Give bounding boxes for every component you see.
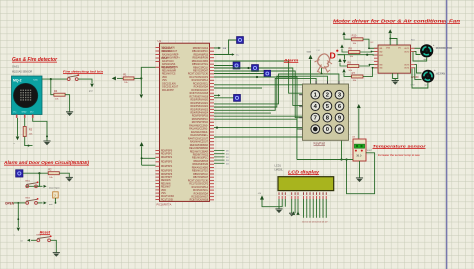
svg-text:R8: R8 <box>347 60 351 64</box>
wire terminal to R1 <box>117 77 123 79</box>
svg-text:RD3/PSP3/AN23: RD3/PSP3/AN23 <box>191 108 209 111</box>
svg-text:OSC2/CLKOUT: OSC2/CLKOUT <box>162 87 179 89</box>
svg-text:VDD: VDD <box>162 77 167 79</box>
label inside title <box>3 160 90 165</box>
svg-text:RD2/PSP2: RD2/PSP2 <box>161 157 173 159</box>
svg-text:RD5/PSP5: RD5/PSP5 <box>161 171 173 173</box>
wire riser to indicator A <box>229 40 237 55</box>
wire U1 D1 stub <box>214 153 225 155</box>
label lcd title <box>288 170 320 175</box>
labels D0-D7 <box>302 222 328 224</box>
node junction probe <box>55 202 57 204</box>
wire R10 left lead <box>344 36 352 39</box>
svg-text:MQ-2: MQ-2 <box>13 79 22 83</box>
wire U2 OUT4 to M2 <box>415 68 422 80</box>
svg-text:OPEN: OPEN <box>5 201 15 205</box>
wire U2 OUT1 to M1 <box>415 47 421 49</box>
svg-text:RE0/AN5/RDBAR: RE0/AN5/RDBAR <box>190 144 209 147</box>
microcontroller U1 PIC16F877A <box>160 43 210 201</box>
wire sounder lead <box>321 68 323 74</box>
wire D/EN wire <box>338 54 378 56</box>
wire R1 to node <box>134 77 141 79</box>
temperature sensor U3 LM35 <box>353 139 366 161</box>
svg-text:RD5/PSP5/P1B: RD5/PSP5/P1B <box>192 116 209 118</box>
wire U1 net 137 <box>214 136 320 138</box>
ground gas pin3 ground <box>43 141 50 145</box>
wire U1 D3 stub <box>214 159 225 161</box>
svg-text:RB4/AN11/KBI0: RB4/AN11/KBI0 <box>192 166 209 169</box>
wire to indicator D <box>214 73 264 75</box>
keypad KP1 <box>299 81 348 140</box>
terminal arrow net 54 <box>232 53 235 56</box>
svg-text:RA5/AN4/SS: RA5/AN4/SS <box>162 63 176 66</box>
ground reset ground <box>53 253 60 257</box>
svg-text:RC1/T1OSI: RC1/T1OSI <box>161 199 173 201</box>
svg-text:OUT4: OUT4 <box>404 68 410 70</box>
svg-text:RA4/T0CKI/C1OUT: RA4/T0CKI/C1OUT <box>188 137 209 140</box>
svg-text:VDD: VDD <box>161 190 166 192</box>
terminal arrow OPEN terminal <box>17 228 20 232</box>
wire to indicator B <box>214 65 233 67</box>
push button SW1 (button1) <box>25 181 38 188</box>
svg-text:OSC2/CLKOUT: OSC2/CLKOUT <box>161 51 178 53</box>
node junction R2 <box>38 172 40 174</box>
gas sensor GAS1 MQ-2 <box>12 76 43 118</box>
svg-text:OSC1/CLKIN: OSC1/CLKIN <box>161 47 175 49</box>
wire R7 left lead <box>344 73 352 76</box>
svg-text:RB6/ICSPCLK: RB6/ICSPCLK <box>193 67 208 69</box>
wire R8 to U2 <box>359 65 378 66</box>
svg-text:RC6/TX/CK/AN18: RC6/TX/CK/AN18 <box>190 199 209 202</box>
node junction pin3 <box>46 135 48 137</box>
wire probe to row <box>55 198 57 203</box>
svg-text:VSS: VSS <box>161 193 166 195</box>
wire R9 left lead <box>342 49 349 52</box>
terminal arrow D terminal <box>343 60 346 64</box>
svg-text:GAS: GAS <box>307 51 312 54</box>
svg-text:RB4/AN11/KBI0: RB4/AN11/KBI0 <box>192 60 209 63</box>
svg-text:SW1: SW1 <box>25 181 31 183</box>
svg-text:R1: R1 <box>123 73 127 77</box>
wire LCD VDD to +5V <box>262 199 282 207</box>
svg-text:PIC16F877A: PIC16F877A <box>157 203 172 207</box>
svg-text:RB5/AN13/T1G: RB5/AN13/T1G <box>192 63 208 66</box>
svg-text:U1: U1 <box>158 39 162 43</box>
wire button2 out <box>37 202 42 204</box>
svg-text:SW4: SW4 <box>67 74 73 76</box>
terminal arrow exit net <box>44 201 47 204</box>
svg-text:VSS: VSS <box>386 48 391 50</box>
wire U1 to keypad row4 <box>214 77 303 129</box>
svg-text:RD0/PSP0: RD0/PSP0 <box>161 150 173 152</box>
node junction EN <box>366 54 368 56</box>
terminal arrow RW terminal <box>292 211 295 215</box>
svg-text:RD7/PSP7/P1D: RD7/PSP7/P1D <box>192 122 209 124</box>
svg-text:exit: exit <box>49 203 53 206</box>
resistor R4 <box>54 89 65 100</box>
terminal arrow temp VCC <box>357 104 361 108</box>
svg-text:RC2/CCP1/P1A: RC2/CCP1/P1A <box>192 186 209 189</box>
terminal arrow GAS terminal <box>309 55 313 59</box>
LCD data wires D0-D7 <box>304 199 327 218</box>
svg-text:RA3/AN3/VREF+: RA3/AN3/VREF+ <box>190 134 208 137</box>
wire U1 net 127 <box>214 127 347 129</box>
svg-text:Alarm and Door Open Circuit(IN: Alarm and Door Open Circuit(INSIDE) <box>3 160 90 165</box>
svg-text:RE2/AN7: RE2/AN7 <box>161 186 171 189</box>
node junction R3 net <box>28 145 30 147</box>
wire GAS1 pin2 to R3 <box>24 118 26 127</box>
logic state indicator E <box>234 94 241 101</box>
svg-text:RD3/PSP3: RD3/PSP3 <box>161 162 173 164</box>
resistor R1 <box>123 73 134 84</box>
svg-text:RC6/TX/CK/AN18: RC6/TX/CK/AN18 <box>190 92 209 95</box>
terminal arrow RA0 net <box>218 47 221 50</box>
node junction row2 <box>247 67 249 69</box>
resistor R7 <box>352 71 363 82</box>
svg-text:DOORMOTOR: DOORMOTOR <box>436 47 452 50</box>
svg-text:RD0/PSP0/AN20: RD0/PSP0/AN20 <box>191 99 209 102</box>
node junction sounder <box>321 73 323 75</box>
svg-text:RC5/SDO/AN17: RC5/SDO/AN17 <box>191 195 208 198</box>
svg-text:MQ2GAS SENSOR: MQ2GAS SENSOR <box>12 71 33 74</box>
U1 right pin stubs <box>210 48 215 201</box>
svg-text:RE2/AN7/CSBAR: RE2/AN7/CSBAR <box>190 150 208 153</box>
svg-text:2: 2 <box>326 93 329 99</box>
svg-text:R2: R2 <box>48 168 52 172</box>
svg-text:OUT2: OUT2 <box>404 51 410 53</box>
wire U1 net 116 to temp junction <box>214 116 342 159</box>
terminal arrow reset left terminal <box>27 239 30 242</box>
logic state indicator B <box>233 62 240 69</box>
label alarm title <box>283 58 299 63</box>
wire B2 to R2 <box>23 172 48 174</box>
wire U2 top pins join <box>390 39 397 46</box>
wire LCD RW <box>294 199 296 213</box>
svg-text:OSC1/CLKIN: OSC1/CLKIN <box>162 83 176 85</box>
svg-text:7: 7 <box>314 116 317 122</box>
svg-text:LM016L: LM016L <box>275 170 284 172</box>
svg-text:RB7/ICSPDAT: RB7/ICSPDAT <box>193 176 208 179</box>
svg-text:LCD1: LCD1 <box>275 165 282 168</box>
terminal arrow +5V LCD <box>260 195 264 199</box>
wire U2 OUT3 to M2 <box>415 65 422 73</box>
wire U1 D2 stub <box>214 156 225 158</box>
svg-text:RB3/AN9/PGM: RB3/AN9/PGM <box>193 57 209 60</box>
wire to indicator E <box>214 97 234 99</box>
ground temp ground <box>356 178 363 182</box>
label gas-fire title <box>12 57 58 63</box>
svg-text:KeyPad: KeyPad <box>314 141 326 145</box>
terminal arrow R10 input <box>342 32 345 36</box>
svg-text:RA2/AN2/VREF-: RA2/AN2/VREF- <box>162 53 179 56</box>
wire reset to ground <box>51 240 57 252</box>
wire U2 gnd drop <box>394 79 396 81</box>
wire U1 to keypad row2 <box>214 68 303 105</box>
svg-text:GAS1: GAS1 <box>12 65 19 69</box>
node junction U2 VCC <box>389 38 391 40</box>
wire LCD RS <box>291 199 293 213</box>
push button SW4 (fire button) <box>67 74 80 81</box>
wire temp GND line <box>297 159 353 161</box>
node junction R10 <box>368 47 370 49</box>
svg-text:36.0: 36.0 <box>356 153 362 157</box>
wire temp VCC wire <box>358 109 360 140</box>
svg-text:RD7/PSP7: RD7/PSP7 <box>161 177 173 179</box>
resistor R10 <box>352 34 363 45</box>
svg-text:RC7/RX/DT/AN19: RC7/RX/DT/AN19 <box>189 95 208 98</box>
wire R4 to ground <box>65 95 70 112</box>
wire temp to ground <box>359 161 361 178</box>
wire U1 D0 stub <box>214 150 225 152</box>
svg-text:OUT3: OUT3 <box>404 64 410 66</box>
svg-text:RD1/PSP1/AN21: RD1/PSP1/AN21 <box>191 102 209 105</box>
svg-text:RC4/SDI/SDA: RC4/SDI/SDA <box>194 86 209 89</box>
ground LCD ground <box>275 209 282 213</box>
resistor R3 <box>23 127 26 137</box>
node junction R7 <box>372 67 374 69</box>
logic state indicator A <box>237 37 244 44</box>
resistor R8 <box>347 60 358 71</box>
svg-text:RB5/AN13/T1G: RB5/AN13/T1G <box>192 170 208 173</box>
wire RA0 stub <box>214 47 219 49</box>
svg-text:RC1/T1OSI/CCP2: RC1/T1OSI/CCP2 <box>189 184 208 186</box>
svg-text:RC2/CCP1/P1A: RC2/CCP1/P1A <box>192 79 209 82</box>
LED D1 alarm indicator <box>330 50 339 61</box>
motor M2 AC FAN <box>422 69 446 86</box>
label reset title <box>40 231 51 235</box>
svg-text:SW2: SW2 <box>25 197 31 199</box>
wire LCD VSS to ground <box>278 199 280 209</box>
svg-text:R10: R10 <box>352 34 357 38</box>
wire R3 bottom to net <box>25 137 33 146</box>
terminal arrow R1 input <box>112 76 116 80</box>
logic probe ? <box>53 192 59 198</box>
wire R8 left lead <box>340 63 347 66</box>
terminal arrow E terminal <box>296 211 299 215</box>
wire M1 return loop <box>413 52 427 62</box>
motor M1 DOORMOTOR <box>420 44 452 61</box>
terminal arrow R1 lower terminal <box>140 94 144 98</box>
wire U1 to keypad col3 <box>214 74 339 104</box>
svg-text:RC0/T1OSO/T1CKI: RC0/T1OSO/T1CKI <box>188 180 209 182</box>
svg-text:AC FAN: AC FAN <box>436 73 445 76</box>
node junction row4 <box>256 76 258 78</box>
LCD1 pin labels and stubs <box>279 192 327 199</box>
ground U2 ground <box>392 81 399 85</box>
svg-text:Door Open: Door Open <box>49 187 60 190</box>
wire U1 to keypad row1 <box>214 61 303 93</box>
svg-text:D: D <box>330 50 336 60</box>
svg-text:MCLR/VPP/THV: MCLR/VPP/THV <box>161 67 178 69</box>
svg-text:OUT1: OUT1 <box>404 48 410 50</box>
svg-text:RE1/AN6/WR: RE1/AN6/WR <box>162 70 176 73</box>
wire U1 to keypad col1 <box>214 78 316 110</box>
resistor R2 <box>48 168 59 179</box>
svg-text:RB3/AN9/PGM: RB3/AN9/PGM <box>193 163 209 166</box>
svg-text:RB0/INT/AN12: RB0/INT/AN12 <box>193 153 209 156</box>
label fire btn title <box>63 70 103 74</box>
svg-text:RC3/SCK/SCL: RC3/SCK/SCL <box>193 190 209 192</box>
svg-text:0: 0 <box>326 127 329 133</box>
svg-text:RD4/PSP4: RD4/PSP4 <box>161 166 173 168</box>
svg-text:MCLR: MCLR <box>161 58 168 60</box>
svg-text:?: ? <box>54 194 56 198</box>
svg-text:RE2/AN7/CS: RE2/AN7/CS <box>162 73 176 76</box>
wire left bus vertical <box>141 146 143 165</box>
label KeyPad <box>314 141 326 145</box>
svg-text:RA0/AN0/C12IN0-: RA0/AN0/C12IN0- <box>189 124 208 127</box>
wire U1 to gas arrow <box>214 60 311 85</box>
terminal arrow door-open net <box>44 185 47 188</box>
wire button1 out <box>37 185 42 187</box>
label motor title <box>333 19 460 25</box>
svg-text:RE0/AN5: RE0/AN5 <box>161 179 171 182</box>
wire node to button1 <box>26 173 40 186</box>
ground R4 ground <box>66 112 73 116</box>
wire GAS1 pin1 to terminal <box>17 118 19 136</box>
svg-text:R4: R4 <box>54 89 58 93</box>
wire node down <box>140 78 142 94</box>
node node R1 <box>140 77 142 79</box>
svg-text:RB1/AN10/P1C: RB1/AN10/P1C <box>192 50 208 53</box>
wire U2 gnd pins join <box>393 73 398 78</box>
terminal arrow VDD arrow <box>140 142 144 146</box>
push button SW2 (button2) <box>25 197 38 204</box>
svg-text:RB6/ICSPCLK: RB6/ICSPCLK <box>193 174 208 176</box>
svg-text:RD6/PSP6: RD6/PSP6 <box>161 174 173 176</box>
wire to indicator A riser <box>214 54 232 56</box>
wire reset wire left <box>31 239 37 241</box>
logic state indicator B2 <box>16 170 23 177</box>
svg-text:RE1/AN6/WRBAR: RE1/AN6/WRBAR <box>189 147 208 150</box>
terminal arrow R8 input <box>338 58 341 62</box>
logic state indicator D <box>264 70 271 77</box>
svg-text:R7: R7 <box>352 71 356 75</box>
svg-text:RC0/T1OSO/T1CKI: RC0/T1OSO/T1CKI <box>188 74 209 76</box>
label temp title <box>373 145 427 149</box>
svg-text:Reset: Reset <box>40 231 51 235</box>
logic state indicator C <box>252 65 259 72</box>
svg-text:RB7/ICSPDAT: RB7/ICSPDAT <box>193 70 208 73</box>
wire temp VOUT loop <box>347 153 375 194</box>
node junction drop <box>17 218 19 220</box>
terminal arrow R9 input <box>340 44 343 48</box>
svg-text:MCLR/VPP: MCLR/VPP <box>162 90 174 92</box>
wire U1 to keypad col2 <box>214 76 328 107</box>
svg-text:RD6/PSP6/P1C: RD6/PSP6/P1C <box>192 119 209 121</box>
wire U2 OUT2 to M1 <box>415 52 421 55</box>
wire R9 to U2 <box>360 51 378 54</box>
svg-text:RD1/PSP1: RD1/PSP1 <box>161 154 173 156</box>
wire U1 net 113 <box>214 112 271 114</box>
resistor R9 <box>349 46 360 57</box>
wire M2 return loop <box>412 69 428 89</box>
svg-text:RA1/AN1/C12IN1-: RA1/AN1/C12IN1- <box>189 128 208 131</box>
svg-text:VOUT: VOUT <box>367 150 373 152</box>
svg-text:RB2/AN8/P1B: RB2/AN8/P1B <box>193 160 208 163</box>
svg-text:RC1/T1OSI/CCP2: RC1/T1OSI/CCP2 <box>189 77 208 79</box>
wire node to U1 MCLR <box>141 67 155 78</box>
wire left bus to pin2 <box>142 164 156 166</box>
wire branch to R4 <box>51 79 54 95</box>
terminal arrow gas pin1 gnd <box>16 137 20 141</box>
node junction temp2 <box>345 158 347 160</box>
wire GAS1 DOUT to button <box>42 78 67 80</box>
svg-text:RD2/PSP2/AN22: RD2/PSP2/AN22 <box>191 105 209 108</box>
LCD display LCD1 screen <box>278 177 334 191</box>
terminal arrow net 95 <box>218 94 220 96</box>
node junction DOUT/R4 <box>50 78 52 80</box>
svg-text:LCD display: LCD display <box>288 170 320 175</box>
svg-text:Temperature sensor: Temperature sensor <box>373 145 427 149</box>
node junction left bus1 <box>141 157 143 159</box>
wire LCD VEE join <box>284 199 286 207</box>
sounder LS1 alarm <box>315 50 333 76</box>
wire U1 D4 stub <box>214 162 225 164</box>
svg-text:RC4/SDI/SDA: RC4/SDI/SDA <box>194 192 209 195</box>
wire button to terminal <box>78 79 92 83</box>
svg-text:RC3/SCK/SCL: RC3/SCK/SCL <box>193 83 209 85</box>
svg-text:RA5/AN4/C2OUT: RA5/AN4/C2OUT <box>190 141 209 144</box>
wire R10 to U2 <box>363 39 378 48</box>
ground RS ground <box>289 213 294 216</box>
terminal arrow fire btn gnd <box>90 84 94 88</box>
svg-text:DO: DO <box>30 112 34 114</box>
wire D to terminal <box>338 55 345 60</box>
wire U2 VCC riser <box>389 34 391 39</box>
svg-text:RE1/AN6: RE1/AN6 <box>161 182 171 185</box>
svg-text:RA4/T0CKI: RA4/T0CKI <box>162 60 174 63</box>
node junction temp1 <box>340 158 342 160</box>
svg-text:RC0/T1OSO: RC0/T1OSO <box>161 196 174 198</box>
svg-text:Increase the sensor temp to se: Increase the sensor temp to see <box>378 153 421 157</box>
wire R7 to U2 <box>363 68 378 77</box>
U1 left pin stubs <box>156 47 160 200</box>
wire U1 to temp sensor GND line <box>214 119 297 159</box>
wire GAS1 pin3 to ground <box>33 118 47 141</box>
svg-text:R9: R9 <box>349 46 353 50</box>
svg-text:RD4/PSP4/AN24: RD4/PSP4/AN24 <box>191 112 209 115</box>
svg-text:R3: R3 <box>29 128 33 132</box>
wire R2 to ground <box>59 173 69 177</box>
svg-text:VSS: VSS <box>162 80 167 82</box>
motor driver U2 L293D <box>374 45 415 73</box>
node junction R8 <box>369 64 371 66</box>
svg-text:Alarm: Alarm <box>283 58 299 63</box>
bus line right <box>446 0 448 269</box>
ground R2 ground <box>66 177 73 181</box>
push button SW3 (reset button) <box>36 235 51 242</box>
terminal arrow R7 input <box>342 69 345 73</box>
node junction R9 <box>371 51 373 53</box>
wire net 95 stub <box>214 94 219 96</box>
node junction OPEN <box>17 202 19 204</box>
svg-text:gnd: gnd <box>89 91 92 93</box>
wire U1 to keypad row3 <box>214 71 303 118</box>
svg-text:GND: GND <box>22 112 27 114</box>
wire U1 net 88 <box>214 87 262 89</box>
svg-text:RC5/SDO/AN17: RC5/SDO/AN17 <box>191 89 208 92</box>
svg-text:RB0/INT/AN12: RB0/INT/AN12 <box>193 47 209 50</box>
svg-text:RA2/AN2/VREF-: RA2/AN2/VREF- <box>191 131 208 134</box>
node junction 127 <box>216 127 218 129</box>
svg-text:SOUNDER: SOUNDER <box>318 74 329 76</box>
U1 inner pin labels <box>161 47 209 202</box>
terminal arrow U2 VCC <box>388 29 392 33</box>
wire LCD E <box>297 199 299 213</box>
wire OPEN to button2 <box>14 202 26 204</box>
svg-text:RB2/AN8/P1B: RB2/AN8/P1B <box>193 53 208 56</box>
